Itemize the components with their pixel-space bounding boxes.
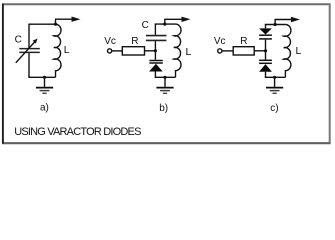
resistor R (c) (233, 47, 254, 55)
wire: b top rail (155, 23, 176, 25)
frame border bottom (2, 142, 331, 144)
wire: a top horizontal (28, 23, 55, 25)
wire: b output stub up (164, 19, 166, 24)
svg-text:L: L (64, 44, 70, 56)
output arrow (c) (275, 17, 301, 22)
inductor L (c) coil (284, 25, 291, 78)
capacitor C (b) plates (146, 36, 167, 41)
svg-text:R: R (240, 36, 247, 47)
wire: b node up to capacitor (154, 41, 156, 51)
wire: b varactor to bottom rail (154, 72, 156, 78)
frame border right (329, 4, 331, 143)
frame border left (2, 4, 4, 144)
wire: b terminal to resistor (112, 50, 123, 52)
varactor D2 (c bottom): cathode bars (259, 60, 272, 63)
varactor D1 (c top): anode triangle pointing down (259, 28, 272, 34)
capacitor C (variable) plates (19, 49, 40, 53)
svg-text:R: R (131, 36, 138, 47)
ground (b) (156, 77, 173, 93)
ground (c) (266, 77, 283, 93)
node: b ground junction (163, 76, 166, 79)
variable-capacitor arrow (16, 39, 38, 63)
ground (a) (36, 77, 53, 93)
frame border top (2, 3, 331, 5)
svg-text:C: C (142, 20, 149, 31)
wire: b resistor to node (145, 50, 156, 52)
wire: c resistor to node (254, 50, 265, 52)
svg-text:Vc: Vc (104, 36, 116, 47)
wire: c node down to varactor D2 (265, 51, 267, 60)
wire: a bottom horizontal (28, 76, 55, 78)
wire: a left vertical upper segment (28, 24, 30, 48)
node: b R/C/varactor junction (154, 49, 157, 52)
varactor D1 (c top): cathode bars (259, 35, 272, 39)
resistor R (b) (122, 47, 144, 55)
wire: b capacitor up to top rail (154, 24, 156, 35)
node: b output junction (163, 23, 166, 26)
varactor D (b): cathode bars (149, 61, 162, 64)
wire: b bottom rail (155, 76, 176, 78)
node: c R/varactor junction (264, 49, 267, 52)
varactor D (b): anode triangle (149, 64, 163, 72)
wire: c varactor D2 to bottom rail (265, 72, 267, 78)
svg-text:b): b) (159, 103, 168, 114)
wire: c terminal to resistor (222, 50, 233, 52)
terminal Vc (c) (218, 49, 222, 53)
svg-text:L: L (186, 46, 192, 58)
node: a ground junction (43, 76, 46, 79)
inductor L (b) coil (174, 24, 181, 77)
wire: b node down to varactor (154, 51, 156, 60)
wire: c varactor D1 up to top rail (265, 24, 267, 29)
node: c ground junction (273, 76, 276, 79)
wire: a left vertical lower segment (28, 53, 30, 77)
svg-text:USING VARACTOR DIODES: USING VARACTOR DIODES (14, 126, 141, 138)
node: c output junction (274, 23, 277, 26)
varactor D2 (c bottom): anode triangle pointing up (259, 64, 272, 72)
svg-text:Vc: Vc (214, 36, 226, 47)
output arrow (b) (164, 17, 190, 22)
wire: c top rail (265, 24, 286, 26)
wire: c output stub up (274, 20, 276, 25)
node: a top junction (54, 23, 57, 26)
svg-text:L: L (296, 45, 302, 57)
svg-text:a): a) (40, 103, 49, 114)
terminal Vc (b) (108, 49, 112, 53)
output arrow (a) (55, 17, 81, 22)
wire: c bottom rail (265, 76, 286, 78)
wire: a output stub up (55, 19, 57, 24)
inductor L (a) coil (54, 24, 61, 77)
wire: c node up to varactor D1 (265, 40, 267, 51)
svg-text:c): c) (270, 103, 278, 114)
svg-text:C: C (15, 35, 22, 46)
